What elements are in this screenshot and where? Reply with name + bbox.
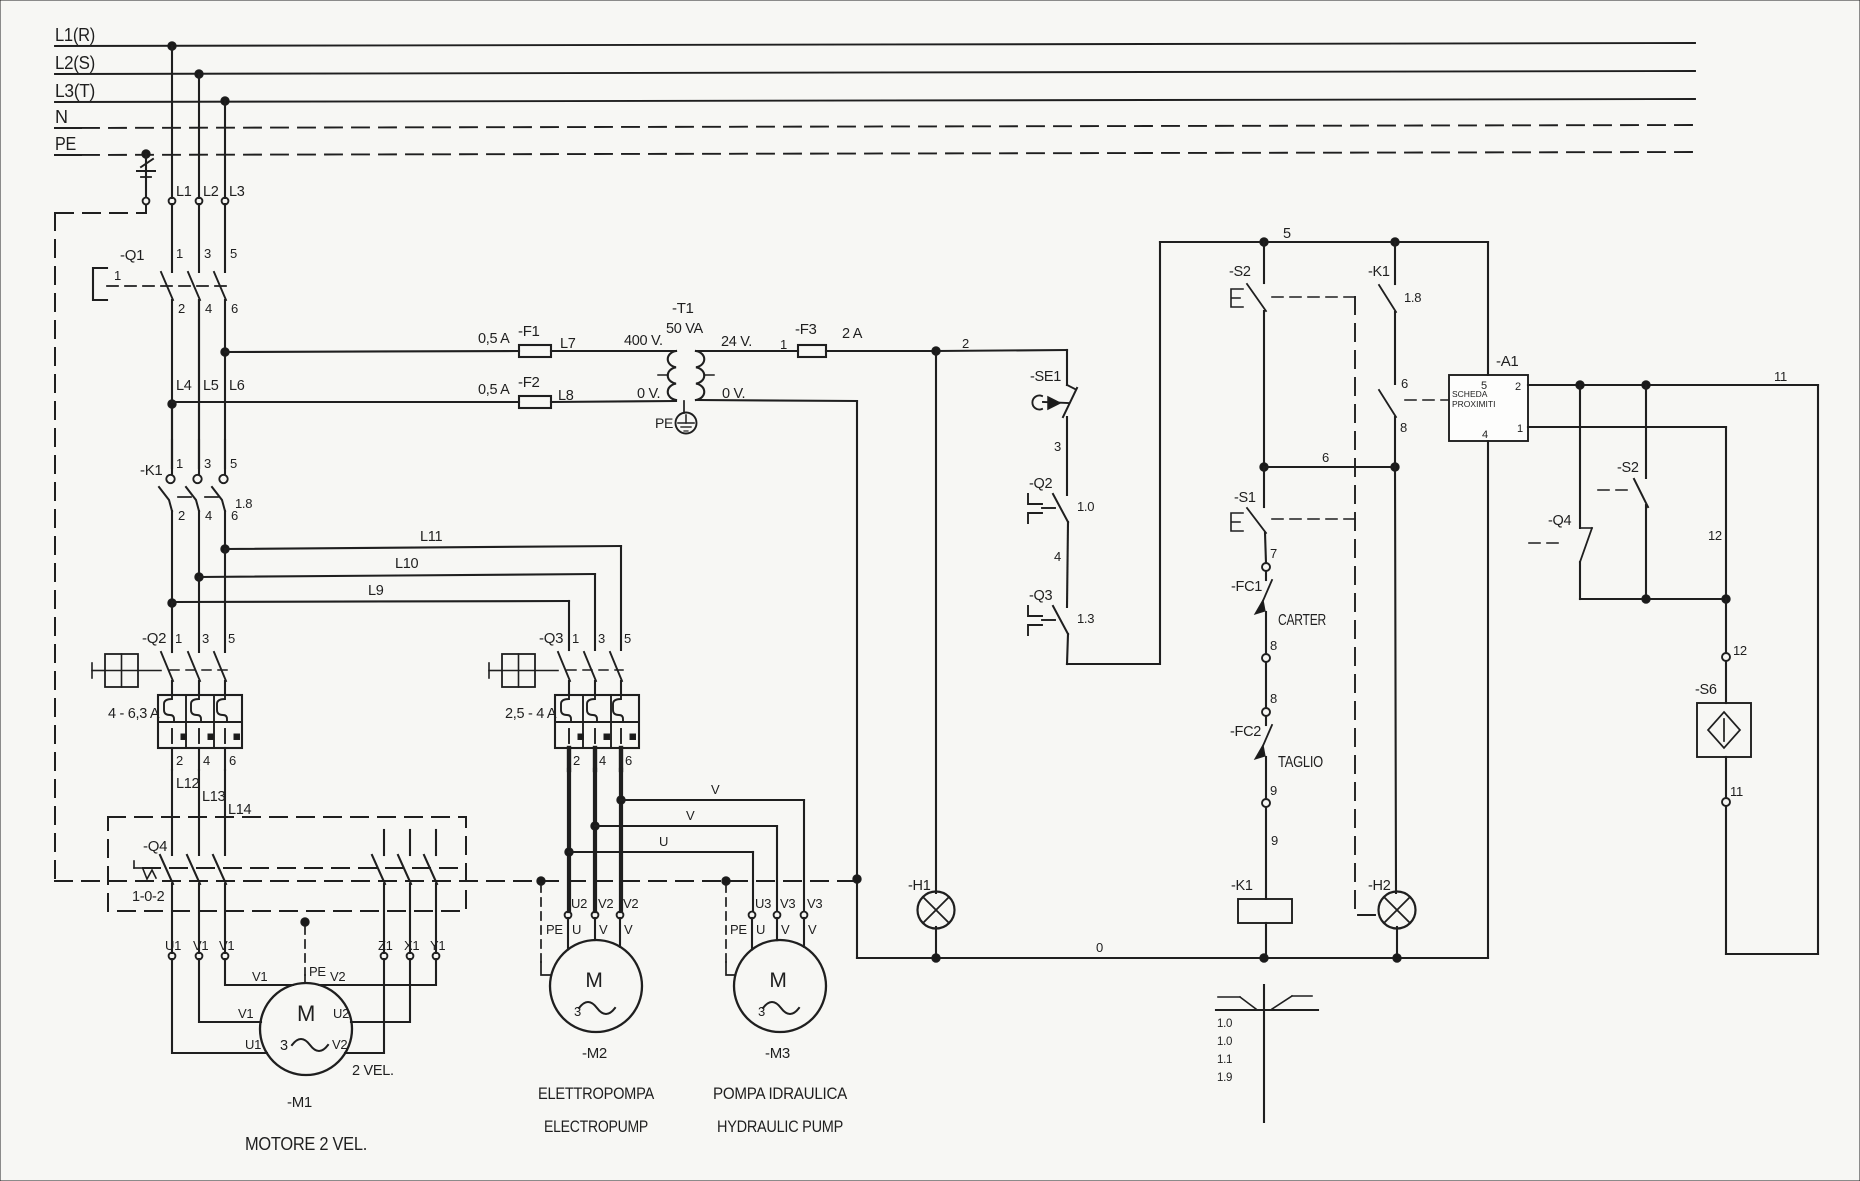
svg-text:6: 6 xyxy=(1401,376,1408,391)
svg-text:4: 4 xyxy=(205,301,212,316)
svg-text:6: 6 xyxy=(231,301,238,316)
svg-text:U: U xyxy=(659,834,668,849)
svg-text:-S2: -S2 xyxy=(1229,264,1251,280)
svg-text:5: 5 xyxy=(228,631,235,646)
svg-text:V3: V3 xyxy=(807,896,822,911)
svg-text:L10: L10 xyxy=(395,556,419,572)
svg-text:1: 1 xyxy=(572,631,579,646)
svg-text:CARTER: CARTER xyxy=(1278,612,1326,629)
svg-text:1.3: 1.3 xyxy=(1077,611,1094,626)
svg-text:0: 0 xyxy=(1096,940,1103,955)
svg-text:-T1: -T1 xyxy=(672,300,694,317)
svg-text:1.0: 1.0 xyxy=(1217,1036,1232,1048)
svg-text:2: 2 xyxy=(573,753,580,768)
svg-text:11: 11 xyxy=(1730,784,1743,799)
svg-text:1.0: 1.0 xyxy=(1077,499,1094,514)
svg-text:2,5 - 4 A: 2,5 - 4 A xyxy=(505,706,557,722)
svg-text:V: V xyxy=(711,782,720,797)
svg-text:1: 1 xyxy=(780,337,787,352)
svg-text:-F3: -F3 xyxy=(795,321,817,338)
svg-text:Z1: Z1 xyxy=(378,938,393,953)
svg-text:ELETTROPOMPA: ELETTROPOMPA xyxy=(538,1084,655,1103)
svg-text:-SE1: -SE1 xyxy=(1030,369,1061,385)
svg-text:0,5 A: 0,5 A xyxy=(478,331,510,347)
svg-text:3: 3 xyxy=(204,246,211,261)
svg-text:M: M xyxy=(585,969,602,992)
svg-text:U1: U1 xyxy=(165,938,181,953)
svg-text:-Q3: -Q3 xyxy=(1029,588,1053,604)
svg-text:-Q4: -Q4 xyxy=(1548,513,1572,529)
svg-text:L2: L2 xyxy=(203,184,219,200)
svg-text:PE: PE xyxy=(546,922,563,937)
svg-text:-H2: -H2 xyxy=(1368,878,1391,894)
svg-text:9: 9 xyxy=(1270,783,1277,798)
svg-text:L4: L4 xyxy=(176,378,192,394)
svg-text:-M3: -M3 xyxy=(765,1045,790,1062)
svg-text:2: 2 xyxy=(1515,381,1521,393)
svg-text:1.0: 1.0 xyxy=(1217,1018,1232,1030)
svg-text:2: 2 xyxy=(178,301,185,316)
svg-text:400 V.: 400 V. xyxy=(624,333,663,349)
svg-text:M: M xyxy=(769,969,786,992)
svg-text:2 A: 2 A xyxy=(842,326,863,342)
svg-text:-M1: -M1 xyxy=(287,1094,312,1111)
svg-text:PROXIMITI: PROXIMITI xyxy=(1452,399,1495,409)
svg-text:-FC2: -FC2 xyxy=(1230,724,1261,740)
svg-text:3: 3 xyxy=(280,1038,288,1054)
svg-text:L6: L6 xyxy=(229,378,245,394)
svg-text:-K1: -K1 xyxy=(1231,878,1253,894)
svg-text:3: 3 xyxy=(202,631,209,646)
svg-text:3: 3 xyxy=(598,631,605,646)
svg-text:2 VEL.: 2 VEL. xyxy=(352,1063,394,1079)
svg-text:V1: V1 xyxy=(252,969,267,984)
svg-text:1-0-2: 1-0-2 xyxy=(132,889,165,905)
svg-text:L13: L13 xyxy=(202,789,226,805)
svg-text:2: 2 xyxy=(176,753,183,768)
svg-text:PE: PE xyxy=(55,134,76,154)
svg-text:7: 7 xyxy=(1270,546,1277,561)
svg-text:-S2: -S2 xyxy=(1617,460,1639,476)
svg-text:1: 1 xyxy=(175,631,182,646)
svg-text:-M2: -M2 xyxy=(582,1045,607,1062)
svg-text:-Q1: -Q1 xyxy=(120,247,144,264)
svg-text:1.1: 1.1 xyxy=(1217,1054,1232,1066)
svg-text:4: 4 xyxy=(1054,549,1061,564)
svg-text:-Q2: -Q2 xyxy=(142,630,166,647)
svg-text:50 VA: 50 VA xyxy=(666,321,704,337)
svg-text:-F2: -F2 xyxy=(518,374,540,391)
svg-text:V: V xyxy=(808,922,817,937)
svg-text:V2: V2 xyxy=(332,1037,347,1052)
svg-text:V: V xyxy=(599,922,608,937)
svg-text:L9: L9 xyxy=(368,583,384,599)
svg-text:L8: L8 xyxy=(558,388,574,404)
svg-text:V3: V3 xyxy=(780,896,795,911)
svg-text:2: 2 xyxy=(178,508,185,523)
svg-text:X1: X1 xyxy=(404,938,419,953)
svg-text:1.8: 1.8 xyxy=(1404,290,1421,305)
svg-text:3: 3 xyxy=(204,456,211,471)
svg-text:1: 1 xyxy=(114,268,121,283)
svg-text:U: U xyxy=(756,922,765,937)
svg-text:-Q3: -Q3 xyxy=(539,630,563,647)
svg-text:L11: L11 xyxy=(420,529,442,545)
svg-text:1: 1 xyxy=(176,246,183,261)
svg-text:V1: V1 xyxy=(219,938,234,953)
svg-text:PE: PE xyxy=(655,415,673,431)
svg-text:24 V.: 24 V. xyxy=(721,334,752,350)
svg-text:-Q4: -Q4 xyxy=(143,838,167,855)
svg-text:6: 6 xyxy=(229,753,236,768)
svg-text:-K1: -K1 xyxy=(1368,264,1390,280)
svg-text:-A1: -A1 xyxy=(1496,353,1518,370)
svg-text:MOTORE 2 VEL.: MOTORE 2 VEL. xyxy=(245,1134,367,1154)
svg-text:-H1: -H1 xyxy=(908,878,931,894)
svg-text:L1(R): L1(R) xyxy=(55,25,95,45)
svg-text:4: 4 xyxy=(1482,429,1488,441)
svg-text:L14: L14 xyxy=(228,802,252,818)
svg-text:-Q2: -Q2 xyxy=(1029,476,1053,492)
svg-text:V2: V2 xyxy=(330,969,345,984)
svg-text:PE: PE xyxy=(730,922,747,937)
svg-text:8: 8 xyxy=(1270,691,1277,706)
svg-text:ELECTROPUMP: ELECTROPUMP xyxy=(544,1117,648,1136)
svg-text:1: 1 xyxy=(176,456,183,471)
svg-text:5: 5 xyxy=(1481,380,1487,392)
svg-text:11: 11 xyxy=(1774,369,1787,384)
svg-text:-F1: -F1 xyxy=(518,323,540,340)
svg-text:5: 5 xyxy=(1283,226,1291,242)
svg-text:U: U xyxy=(572,922,581,937)
svg-text:PE: PE xyxy=(309,964,326,979)
svg-text:2: 2 xyxy=(962,336,969,351)
svg-text:U2: U2 xyxy=(571,896,587,911)
svg-text:5: 5 xyxy=(624,631,631,646)
svg-text:V: V xyxy=(624,922,633,937)
svg-text:Y1: Y1 xyxy=(430,938,445,953)
svg-text:TAGLIO: TAGLIO xyxy=(1278,754,1323,771)
svg-text:V: V xyxy=(686,808,695,823)
svg-text:L5: L5 xyxy=(203,378,219,394)
svg-text:4: 4 xyxy=(205,508,212,523)
svg-text:6: 6 xyxy=(625,753,632,768)
svg-text:L2(S): L2(S) xyxy=(55,53,95,73)
svg-text:8: 8 xyxy=(1270,638,1277,653)
svg-text:V1: V1 xyxy=(238,1006,253,1021)
svg-text:U3: U3 xyxy=(755,896,771,911)
svg-text:6: 6 xyxy=(1322,450,1329,465)
svg-text:-S1: -S1 xyxy=(1234,490,1256,506)
svg-text:0,5 A: 0,5 A xyxy=(478,382,510,398)
svg-text:12: 12 xyxy=(1733,643,1747,658)
svg-text:M: M xyxy=(297,1001,315,1026)
svg-text:-S6: -S6 xyxy=(1695,682,1717,698)
svg-text:V1: V1 xyxy=(193,938,208,953)
svg-text:12: 12 xyxy=(1708,528,1722,543)
svg-text:U1: U1 xyxy=(245,1037,261,1052)
svg-text:L12: L12 xyxy=(176,776,200,792)
svg-text:5: 5 xyxy=(230,246,237,261)
svg-text:4: 4 xyxy=(203,753,210,768)
svg-text:8: 8 xyxy=(1400,420,1407,435)
svg-text:V: V xyxy=(781,922,790,937)
svg-text:5: 5 xyxy=(230,456,237,471)
svg-text:L3(T): L3(T) xyxy=(55,81,95,101)
svg-text:V2: V2 xyxy=(623,896,638,911)
svg-text:9: 9 xyxy=(1271,833,1278,848)
svg-text:L7: L7 xyxy=(560,336,576,352)
svg-text:4: 4 xyxy=(599,753,606,768)
svg-text:L1: L1 xyxy=(176,184,192,200)
svg-text:L3: L3 xyxy=(229,184,245,200)
svg-text:1: 1 xyxy=(1517,423,1523,435)
svg-text:3: 3 xyxy=(1054,439,1061,454)
svg-text:POMPA IDRAULICA: POMPA IDRAULICA xyxy=(713,1084,848,1103)
svg-text:4 - 6,3 A: 4 - 6,3 A xyxy=(108,706,160,722)
svg-text:U2: U2 xyxy=(333,1006,349,1021)
svg-text:-FC1: -FC1 xyxy=(1231,579,1262,595)
svg-text:-K1: -K1 xyxy=(140,462,162,479)
svg-text:HYDRAULIC PUMP: HYDRAULIC PUMP xyxy=(717,1117,843,1136)
svg-text:0 V.: 0 V. xyxy=(637,386,660,402)
svg-text:N: N xyxy=(55,107,68,127)
svg-text:1.9: 1.9 xyxy=(1217,1072,1232,1084)
svg-text:V2: V2 xyxy=(598,896,613,911)
svg-text:6: 6 xyxy=(231,508,238,523)
